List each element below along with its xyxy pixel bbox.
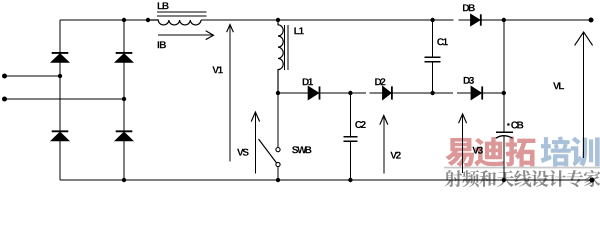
- junction dot at (432.6,20): [430, 18, 434, 22]
- capacitor C1 plates: [425, 57, 441, 62]
- diode D3: [471, 86, 481, 99]
- wire D row segment gap to D2: [370, 92, 383, 94]
- label SWB: [292, 146, 311, 153]
- wire top rail left segment: [60, 19, 454, 21]
- junction dot at (503.8,20): [502, 18, 506, 22]
- arrow V2 head: [380, 116, 388, 125]
- arrow V3 head: [459, 114, 467, 123]
- label C1: [437, 38, 448, 45]
- wire lower input line: [4, 98, 124, 100]
- junction dot at (60,76): [58, 74, 62, 78]
- wire D row segment L1 to D1: [278, 92, 308, 94]
- wire D row segment D1 to gap: [321, 92, 367, 94]
- terminal dot at (592,180): [590, 178, 595, 183]
- label V3: [472, 147, 482, 154]
- junction dot at (124,180): [122, 178, 126, 182]
- junction dot at (278,93): [276, 91, 280, 95]
- wire D row segment D3 to output column: [483, 92, 504, 94]
- capacitor C2 plates: [343, 137, 357, 142]
- switch SWB wire upper: [277, 93, 279, 147]
- watermark divider line: [444, 167, 600, 169]
- label VS: [237, 149, 249, 156]
- inductor L1 core lines: [284, 25, 287, 70]
- junction dot at (124,99): [122, 97, 126, 101]
- label DB: [463, 4, 475, 11]
- wire top rail segment before DB: [459, 19, 471, 21]
- label D2: [375, 78, 385, 85]
- label V1: [212, 66, 223, 73]
- arrow VS shaft: [254, 112, 256, 174]
- diode bridge lower-right: [116, 130, 133, 132]
- label IB: [158, 41, 166, 48]
- wire C1 column: [432, 20, 434, 93]
- wire D row segment D2 to gap: [392, 92, 453, 94]
- junction dot at (148,20): [146, 18, 150, 22]
- junction dot at (432.6,93): [430, 91, 434, 95]
- diode D2: [383, 86, 391, 99]
- capacitor CB plus mark: [507, 123, 509, 125]
- label D3: [464, 77, 474, 84]
- switch SWB contact circle lower: [276, 162, 280, 166]
- junction dot at (350.4,93): [348, 91, 352, 95]
- capacitor CB top plate: [496, 131, 513, 133]
- arrow VL shaft: [583, 32, 585, 158]
- diode D1: [308, 86, 318, 99]
- label C2: [355, 121, 366, 128]
- terminal dot at (4.5,99): [2, 97, 7, 102]
- switch SWB contact circle upper: [276, 148, 280, 152]
- wire output column: [503, 20, 505, 180]
- inductor LB core lines: [157, 12, 207, 16]
- label LB: [158, 2, 169, 9]
- label V2: [390, 152, 400, 159]
- terminal dot at (591,20): [589, 18, 594, 23]
- wire top rail right segment after DB: [482, 19, 591, 21]
- inductor L1 coil (vertical): [278, 20, 283, 93]
- label L1: [294, 27, 304, 34]
- arrow V3 shaft: [462, 114, 464, 173]
- junction dot at (278,180): [276, 178, 280, 182]
- switch SWB wire lower: [277, 167, 279, 180]
- label VL: [553, 82, 564, 89]
- arrow V2 shaft: [383, 116, 385, 174]
- arrow VS head: [251, 112, 259, 122]
- wire bottom rail: [60, 179, 592, 181]
- watermark gray slogan 射频和天线设计专家: [445, 170, 600, 187]
- wire bridge right branch: [123, 20, 125, 180]
- arrow VL head: [575, 32, 593, 45]
- wire D row segment gap to D3: [457, 92, 471, 94]
- wire C2 column: [349, 93, 351, 180]
- diode bridge lower-left: [52, 130, 69, 132]
- capacitor CB curved plate: [496, 136, 513, 139]
- junction dot at (278,20): [276, 18, 280, 22]
- arrow IB head: [206, 31, 214, 40]
- diode bridge upper-left: [52, 52, 69, 54]
- watermark red characters 易迪拓: [445, 137, 535, 167]
- inductor LB coil: [148, 20, 201, 25]
- switch SWB blade: [259, 139, 277, 163]
- wire upper input line: [4, 75, 60, 77]
- label D1: [303, 78, 313, 85]
- diode bridge upper-right: [116, 52, 133, 54]
- arrow V1 shaft: [229, 25, 231, 162]
- arrow IB shaft: [158, 34, 214, 36]
- label CB: [511, 121, 523, 128]
- junction dot at (350.4,180): [348, 178, 352, 182]
- junction dot at (124,20): [122, 18, 126, 22]
- terminal dot at (4.5,76): [2, 74, 7, 79]
- arrow V1 head: [227, 25, 234, 33]
- watermark blue characters 培训: [541, 137, 600, 167]
- junction dot at (503.8,93): [502, 91, 506, 95]
- junction dot at (503.8,180): [502, 178, 506, 182]
- diode DB: [471, 14, 480, 25]
- wire bridge left branch: [59, 20, 61, 180]
